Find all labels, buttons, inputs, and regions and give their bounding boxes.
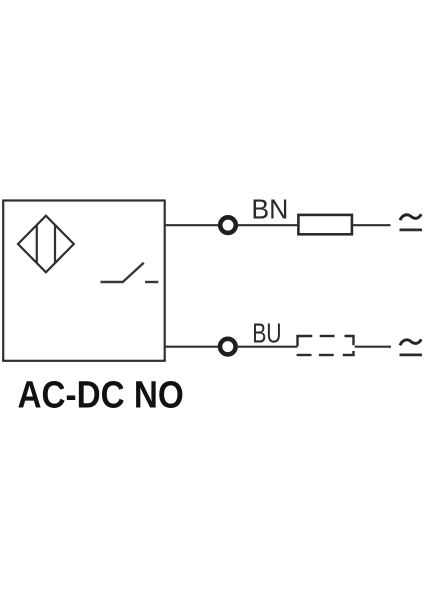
BU terminal circle [220,339,236,355]
AC/DC supply symbol (bottom) tilde [400,339,421,345]
dashed load: bottom-left dash [297,354,312,356]
dashed load: bottom middle dash [319,354,334,356]
wire: BU terminal to dashed load [237,346,298,348]
svg-text:BN: BN [251,194,288,225]
dashed load: top-left corner dash [298,336,313,346]
NO switch contact: right lead [145,281,158,283]
diamond left chord [36,225,38,263]
wire: load to AC/DC source (top) [352,224,391,226]
NO switch contact: blade [123,263,144,283]
diamond right chord [54,225,56,263]
BN terminal circle [220,217,236,233]
svg-text:BU: BU [252,318,281,349]
load resistor (solid box) [298,215,352,234]
dashed load: top-right corner dash [345,336,354,345]
wire: dashed load to AC/DC source (bottom) [355,346,391,348]
wire: box to BU terminal [165,346,219,348]
AC/DC supply symbol (bottom) bar [400,353,423,356]
AC/DC supply symbol (top) tilde [400,214,421,220]
dashed load: bottom-right corner dash [343,351,354,355]
wire: box to BN terminal [165,224,219,226]
dashed load: top middle dash [320,335,335,337]
sensor body box [3,201,165,361]
AC/DC supply symbol (top) bar [400,228,423,231]
proximity sensor symbol U1 (diamond) [18,216,74,273]
svg-text:AC-DC NO: AC-DC NO [18,374,184,417]
NO switch contact: left lead [101,281,124,283]
wire: BN terminal to load [237,224,298,226]
